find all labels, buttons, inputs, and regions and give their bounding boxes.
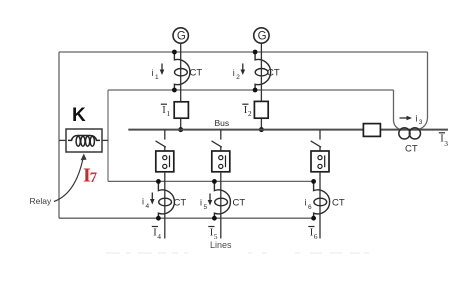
node CT1 top — [172, 50, 177, 55]
svg-text:2: 2 — [236, 74, 240, 81]
svg-text:i: i — [152, 68, 154, 78]
wire branch1 upper — [164, 130, 166, 140]
feeder branch 3 — [305, 130, 345, 241]
svg-text:4: 4 — [157, 232, 161, 241]
svg-text:CT: CT — [233, 197, 246, 208]
node bus G2 — [259, 127, 264, 132]
svg-text:i: i — [142, 197, 144, 207]
feeder branch 1 — [142, 130, 186, 241]
breaker box right on bus — [363, 124, 380, 137]
svg-text:CT: CT — [190, 68, 203, 79]
node CT5 top — [212, 179, 217, 184]
svg-text:G: G — [258, 31, 267, 43]
wire right outer vertical to CT3 — [419, 52, 428, 129]
node CT6 bottom — [311, 216, 316, 221]
CT 2 secondary — [255, 52, 271, 90]
node bus G1 — [178, 127, 183, 132]
svg-text:CT: CT — [174, 197, 187, 208]
svg-text:CT: CT — [332, 197, 345, 208]
generator G1 — [173, 28, 188, 43]
svg-text:i: i — [200, 198, 202, 208]
wire secondary loop H2 — [108, 89, 394, 91]
wire mid vertical — [107, 90, 109, 181]
node CT4 top — [156, 179, 161, 184]
svg-text:Relay: Relay — [30, 196, 52, 206]
CT 4 secondary — [158, 181, 174, 218]
label i3 + arrow — [400, 117, 409, 119]
wire secondary loop H4 bottom — [59, 217, 314, 219]
svg-text:G: G — [177, 31, 186, 43]
wire branch2 upper — [220, 130, 222, 140]
wire right inner vertical to CT3 — [394, 90, 401, 130]
svg-text:i: i — [416, 114, 418, 124]
svg-text:6: 6 — [314, 232, 318, 241]
wire secondary loop H1 top — [59, 51, 428, 53]
breaker box T2 — [254, 101, 268, 118]
svg-text:4: 4 — [146, 203, 150, 210]
relay pointer arrow — [54, 157, 83, 202]
label I5bar — [208, 226, 214, 228]
switch blade 2 — [212, 141, 222, 147]
wire branch1 lower — [164, 172, 166, 239]
node CT2 top — [253, 50, 258, 55]
node CT2 bottom — [253, 88, 258, 93]
svg-text:1: 1 — [155, 74, 159, 81]
svg-text:i: i — [233, 68, 235, 78]
relay K wires — [59, 139, 66, 141]
svg-text:2: 2 — [248, 109, 252, 118]
svg-text:CT: CT — [405, 144, 418, 155]
CT 3 loops — [399, 128, 410, 139]
switch blade 3 — [311, 141, 321, 147]
wire G2 conductor — [260, 43, 262, 101]
faint caption remnants — [106, 252, 369, 254]
node CT5 bottom — [212, 216, 217, 221]
label I1bar — [161, 103, 167, 105]
svg-text:CT: CT — [267, 68, 280, 79]
label I3bar — [439, 132, 445, 134]
relay K box — [66, 129, 102, 152]
svg-text:6: 6 — [308, 204, 312, 211]
svg-text:Lines: Lines — [210, 240, 232, 250]
node CT6 top — [311, 179, 316, 184]
CT 6 secondary — [314, 181, 330, 218]
breaker box B4 — [156, 151, 174, 172]
generator G2 — [254, 28, 269, 43]
relay K coil — [68, 136, 100, 141]
feeder branch 2 — [200, 130, 245, 241]
breaker box B5 — [212, 151, 230, 172]
wire branch3 lower — [319, 172, 321, 239]
breaker box B6 — [311, 151, 329, 172]
label I2bar — [242, 103, 248, 105]
wire left vertical — [58, 52, 60, 218]
node CT4 bottom — [156, 216, 161, 221]
svg-text:5: 5 — [204, 204, 208, 211]
svg-text:3: 3 — [419, 119, 423, 126]
svg-text:7: 7 — [90, 170, 97, 186]
label I6bar — [308, 226, 314, 228]
CT 1 secondary — [174, 52, 190, 90]
switch blade 1 — [156, 141, 166, 147]
svg-text:3: 3 — [444, 139, 448, 148]
svg-text:1: 1 — [166, 109, 170, 118]
wire branch2 lower — [220, 172, 222, 239]
svg-text:i: i — [305, 198, 307, 208]
svg-text:Bus: Bus — [215, 118, 230, 128]
CT 5 secondary — [214, 181, 230, 218]
svg-text:K: K — [72, 105, 86, 126]
label I4bar — [152, 226, 158, 228]
wire secondary loop H3 — [108, 180, 314, 182]
wire G1 conductor — [180, 43, 182, 102]
node CT1 bottom — [172, 88, 177, 93]
breaker box T1 — [174, 102, 188, 118]
bus bar — [128, 129, 448, 131]
wire branch3 upper — [319, 130, 321, 140]
